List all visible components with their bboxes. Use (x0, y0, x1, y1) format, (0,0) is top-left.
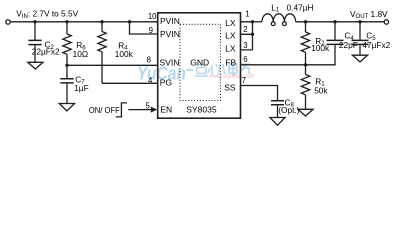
svg-text:SY8035: SY8035 (186, 105, 217, 115)
svg-text:LX: LX (225, 31, 236, 41)
svg-text:PVIN: PVIN (160, 16, 180, 26)
svg-text:GND: GND (190, 58, 209, 68)
svg-text:1µF: 1µF (74, 83, 88, 93)
svg-text:PVIN: PVIN (160, 29, 180, 39)
svg-text:100k: 100k (311, 43, 330, 53)
svg-text:ON/ OFF: ON/ OFF (89, 105, 120, 115)
svg-text:8: 8 (147, 55, 151, 64)
svg-text:47µFx2: 47µFx2 (362, 40, 390, 50)
svg-text:7: 7 (242, 76, 246, 85)
svg-text:PG: PG (160, 78, 172, 88)
svg-text:100k: 100k (115, 49, 134, 59)
svg-text:EN: EN (160, 105, 172, 115)
svg-text:6: 6 (243, 55, 247, 64)
svg-text:SVIN: SVIN (160, 58, 180, 68)
svg-text:50k: 50k (314, 86, 328, 96)
svg-text:4: 4 (148, 76, 153, 85)
svg-text:10: 10 (148, 12, 157, 21)
svg-text:2: 2 (243, 25, 247, 34)
svg-text:LX: LX (225, 43, 236, 53)
svg-text:(Opt.): (Opt.) (278, 105, 299, 115)
svg-text:LX: LX (225, 18, 236, 28)
svg-text:SS: SS (224, 83, 236, 93)
svg-text:22pF: 22pF (339, 40, 358, 50)
svg-text:10Ω: 10Ω (73, 49, 88, 59)
svg-text:22µFx2: 22µFx2 (32, 47, 60, 57)
svg-text:9: 9 (149, 26, 153, 35)
svg-text:1: 1 (245, 9, 249, 18)
svg-text:www.szyucan.com: www.szyucan.com (208, 73, 254, 80)
svg-text:3: 3 (243, 41, 247, 50)
svg-text:5: 5 (146, 102, 151, 111)
svg-text:FB: FB (225, 58, 236, 68)
